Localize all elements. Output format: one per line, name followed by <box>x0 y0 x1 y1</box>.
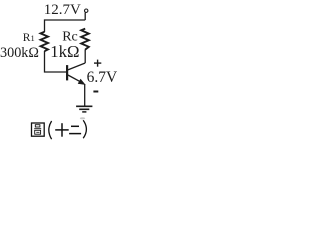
wire <box>44 19 46 32</box>
resistor Rc <box>81 29 89 50</box>
scan speckle <box>80 117 85 119</box>
resistor R1 <box>41 32 48 51</box>
wire <box>84 49 86 63</box>
ground <box>76 105 92 107</box>
svg-text:6.7V: 6.7V <box>87 69 118 86</box>
wire <box>84 13 86 21</box>
transistor Q1 base bar <box>66 65 68 80</box>
node VCE plus sign <box>94 60 101 67</box>
svg-text:R1: R1 <box>23 32 35 44</box>
caption figure (twelve): glyph tu <box>32 123 45 136</box>
svg-text:1kΩ: 1kΩ <box>50 42 79 61</box>
svg-text:12.7V: 12.7V <box>44 2 81 18</box>
transistor Q1 emitter arrowhead <box>78 79 85 84</box>
node VCE minus sign <box>93 91 98 93</box>
transistor Q1 emitter lead <box>68 75 83 83</box>
caption glyph er <box>69 126 81 133</box>
svg-text:300kΩ: 300kΩ <box>0 45 39 61</box>
caption parenthesis left <box>49 121 52 139</box>
terminal VCC <box>85 9 88 12</box>
caption glyph shi <box>55 123 68 137</box>
wire <box>45 51 67 72</box>
caption parenthesis right <box>83 120 86 138</box>
transistor Q1 collector lead <box>68 63 85 70</box>
wire <box>84 84 86 106</box>
wire <box>45 19 86 21</box>
